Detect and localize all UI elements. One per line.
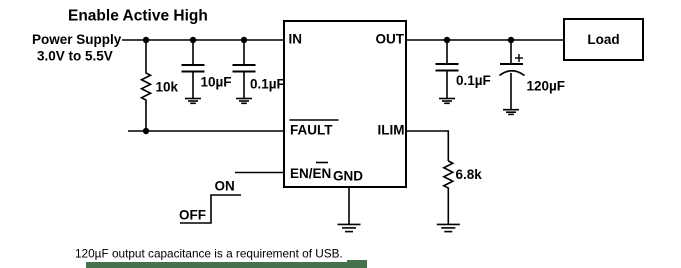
svg-text:Load: Load xyxy=(587,32,619,47)
ground (under C1) xyxy=(185,99,201,104)
svg-text:ON: ON xyxy=(215,179,235,194)
svg-text:IN: IN xyxy=(289,32,303,47)
pin label EN/EN with overline xyxy=(290,163,331,182)
svg-text:OFF: OFF xyxy=(179,208,206,223)
wire: FAULT pull-up net xyxy=(128,130,285,132)
ground (under C3) xyxy=(439,99,455,104)
svg-text:10µF: 10µF xyxy=(201,75,232,90)
svg-text:3.0V to 5.5V: 3.0V to 5.5V xyxy=(37,49,113,64)
op-amp U1 power switch box xyxy=(284,21,406,187)
svg-text:Enable Active High: Enable Active High xyxy=(68,8,208,25)
wire: OUT rail xyxy=(406,39,564,41)
svg-text:120µF: 120µF xyxy=(527,79,566,94)
svg-text:6.8k: 6.8k xyxy=(456,167,483,182)
resistor R1 10k xyxy=(142,40,151,131)
node: junction dot at output 0.1uF xyxy=(444,37,450,43)
wire: GND pin to ground xyxy=(348,187,350,224)
node: junction dot at 10k xyxy=(143,37,149,43)
load box xyxy=(564,19,643,60)
capacitor C2 0.1uF input xyxy=(233,40,256,99)
ground (under GND pin) xyxy=(338,224,361,231)
svg-text:0.1µF: 0.1µF xyxy=(456,73,491,88)
svg-text:10k: 10k xyxy=(156,80,179,95)
svg-text:ILIM: ILIM xyxy=(378,123,405,138)
svg-text:EN/EN: EN/EN xyxy=(290,166,331,181)
svg-text:FAULT: FAULT xyxy=(290,123,333,138)
node: Power Supply label xyxy=(32,32,122,64)
node: junction dot at 0.1uF xyxy=(241,37,247,43)
capacitor C1 10uF xyxy=(182,40,205,99)
node: junction dot at 120uF xyxy=(508,37,514,43)
pin label FAULT with overline xyxy=(290,120,339,138)
green highlight bar main xyxy=(86,262,367,268)
capacitor C3 0.1uF output xyxy=(436,40,459,99)
resistor R2 6.8k xyxy=(444,161,453,224)
node: junction dot at 10uF xyxy=(190,37,196,43)
node: junction dot 10k/FAULT xyxy=(143,128,149,134)
svg-text:120µF output capacitance is a: 120µF output capacitance is a requiremen… xyxy=(75,246,343,260)
svg-text:0.1µF: 0.1µF xyxy=(250,77,285,92)
svg-text:OUT: OUT xyxy=(376,32,405,47)
ground (under R2) xyxy=(437,224,460,231)
wire: EN input xyxy=(235,172,284,174)
ground (under C2) xyxy=(236,99,252,104)
wire: ILIM to R2 xyxy=(406,131,448,161)
svg-text:Power Supply: Power Supply xyxy=(32,32,122,47)
wire: input supply rail xyxy=(122,39,285,41)
waveform: ON/OFF step xyxy=(179,179,241,223)
capacitor C4 120uF electrolytic xyxy=(500,40,525,110)
green highlight bar notch xyxy=(347,260,367,268)
ground (under C4) xyxy=(503,110,519,115)
svg-text:GND: GND xyxy=(333,169,363,184)
